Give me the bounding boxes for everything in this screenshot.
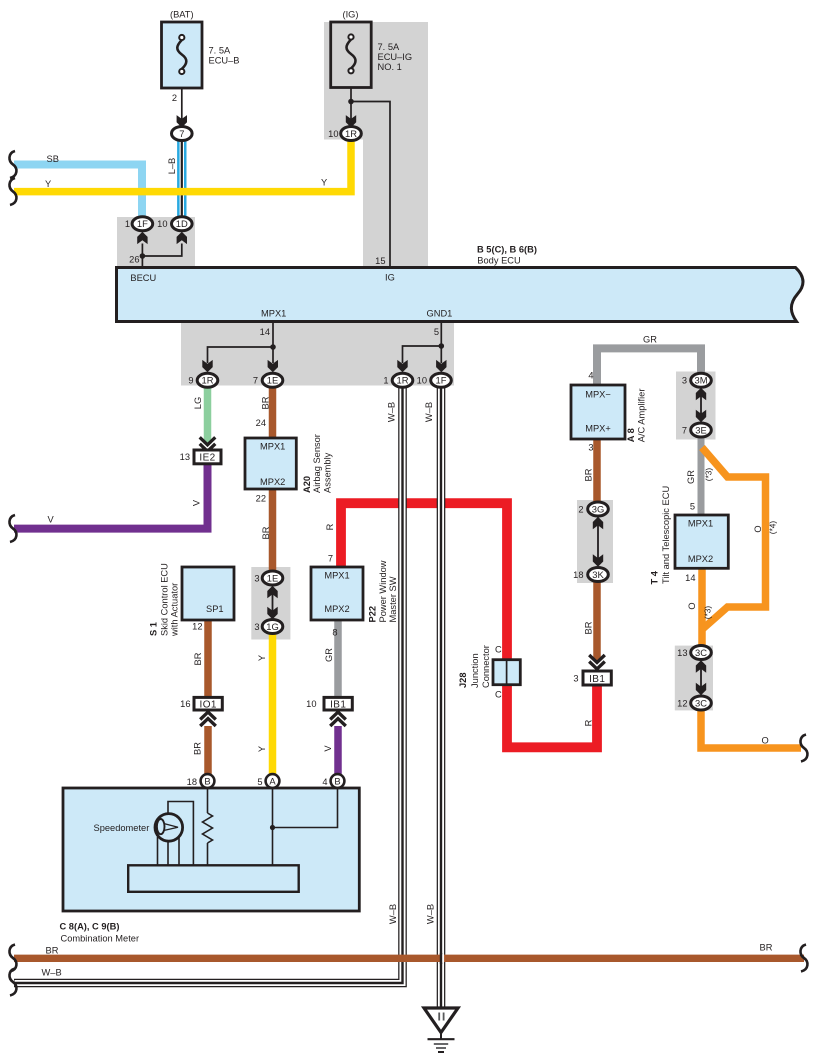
connector 1R(10) (341, 127, 362, 141)
arrow into connector 1F(10) (436, 360, 446, 372)
svg-text:12: 12 (192, 622, 202, 632)
break squiggle O right (800, 735, 807, 762)
wire GR A8 pin 4 to connector 3M (597, 348, 701, 385)
fuse ECU-B box (BAT) (162, 22, 203, 88)
arrow into connector 1E(7) (268, 360, 278, 372)
gray zone connectors 3G/3K (577, 500, 613, 583)
svg-text:R: R (325, 523, 335, 530)
svg-text:SB: SB (47, 154, 59, 164)
svg-text:Power Window: Power Window (378, 560, 388, 622)
wire BR IO1 to meter pin 18(B) (204, 726, 212, 775)
gray zone connectors 1E/1G (251, 567, 290, 640)
svg-text:R: R (584, 719, 594, 726)
connector IB1(3) (583, 671, 611, 685)
svg-text:3: 3 (254, 573, 259, 583)
svg-text:Speedometer: Speedometer (94, 823, 150, 833)
double arrow 1E-1G (272, 589, 274, 617)
arrow up into 1F (137, 232, 147, 244)
svg-text:7. 5A: 7. 5A (378, 42, 401, 52)
Body ECU box (117, 268, 804, 322)
wire fuse ECU-B pin 2 down to connector 7 (181, 88, 183, 119)
connector 3M (691, 373, 712, 387)
svg-text:GR: GR (324, 648, 334, 662)
svg-text:(*3): (*3) (703, 606, 713, 620)
svg-text:5: 5 (434, 327, 439, 337)
connector 1E(7) (262, 373, 283, 387)
gray zone IG fuse column (324, 22, 428, 267)
svg-text:BECU: BECU (130, 273, 156, 283)
svg-text:IB1: IB1 (330, 700, 346, 711)
connector 1E(3) (262, 571, 283, 585)
connector 1G(3) (262, 620, 283, 634)
wire L-B (blue/black) fuse ECU-B to connector 1D (177, 139, 186, 218)
meter pin circle B(4) (331, 774, 345, 788)
arrow into connector 1R(9) (202, 360, 212, 372)
chevrons below IO1 (200, 712, 216, 726)
svg-text:W–B: W–B (387, 402, 397, 422)
arrow into connector 1R(10) (346, 115, 356, 127)
svg-text:B 5(C), B 6(B): B 5(C), B 6(B) (477, 245, 537, 255)
svg-text:B: B (334, 775, 340, 786)
svg-text:(BAT): (BAT) (170, 10, 194, 20)
svg-text:T 4: T 4 (650, 570, 660, 584)
break squiggle W-B left (9, 969, 16, 996)
wire BR connector 3K to IB1(3) (593, 581, 601, 661)
svg-text:A20: A20 (302, 476, 312, 493)
svg-text:3G: 3G (592, 503, 605, 514)
wire O bypass loop (*4) (702, 448, 766, 630)
svg-text:BR: BR (193, 742, 203, 755)
arrow into connector 7 (177, 115, 187, 127)
node junction meter (270, 825, 275, 830)
svg-text:8: 8 (332, 628, 337, 638)
svg-text:15: 15 (375, 256, 385, 266)
connector 1D(10) (172, 217, 193, 231)
svg-text:10: 10 (328, 129, 338, 139)
svg-text:16: 16 (180, 699, 190, 709)
svg-text:7. 5A: 7. 5A (209, 46, 232, 56)
svg-text:W–B: W–B (42, 968, 62, 978)
svg-text:10: 10 (417, 376, 427, 386)
svg-text:GR: GR (643, 335, 657, 345)
svg-text:MPX+: MPX+ (585, 424, 611, 434)
svg-text:W–B: W–B (388, 904, 398, 924)
svg-text:C 8(A), C 9(B): C 8(A), C 9(B) (60, 922, 120, 932)
svg-text:S 1: S 1 (149, 622, 159, 636)
wire LG connector 1R(9) to IE2 (204, 387, 212, 444)
svg-text:MPX−: MPX− (585, 390, 611, 400)
svg-text:SP1: SP1 (206, 604, 224, 614)
connector 3G (588, 502, 609, 516)
wire BR A20 pin 22 to connector 1E(3) (269, 489, 277, 572)
svg-text:14: 14 (685, 573, 695, 583)
svg-text:Master SW: Master SW (388, 576, 398, 622)
wire meter internal pin5 to circuit plate (272, 788, 274, 865)
svg-text:Body ECU: Body ECU (477, 256, 520, 266)
svg-text:MPX1: MPX1 (260, 442, 285, 452)
svg-text:3M: 3M (694, 375, 707, 386)
airbag sensor assembly A20 box (245, 438, 296, 489)
connector 3C(13) (691, 646, 712, 660)
svg-text:ECU–IG: ECU–IG (378, 52, 413, 62)
arrow into connector 1R(1) (397, 360, 407, 372)
wire meter internal pin4 branch (273, 788, 338, 828)
svg-text:7: 7 (179, 128, 184, 139)
wire BR A8 pin 3 to connector 3G (593, 439, 601, 503)
wire speedometer top link (168, 802, 193, 866)
svg-text:J28: J28 (458, 672, 468, 688)
svg-text:1D: 1D (176, 218, 188, 229)
connector IB1(10) (324, 697, 352, 710)
wire BR connector 1E(7) to A20 pin 24 (269, 387, 277, 438)
svg-text:BR: BR (584, 621, 594, 634)
wire O connector 3C(12) to right break (701, 710, 801, 749)
svg-text:2: 2 (172, 93, 177, 103)
node junction on IG feed (348, 99, 354, 105)
svg-text:MPX1: MPX1 (324, 571, 349, 581)
svg-text:C: C (495, 690, 502, 700)
svg-text:1E: 1E (267, 375, 278, 386)
wire speedometer legs (157, 837, 159, 865)
svg-text:LG: LG (193, 397, 203, 409)
svg-text:Connector: Connector (481, 645, 491, 688)
svg-text:3: 3 (573, 673, 578, 683)
svg-text:18: 18 (187, 777, 197, 787)
wire fuse ECU-IG to junction (350, 88, 352, 120)
svg-text:3E: 3E (695, 424, 706, 435)
svg-text:1R: 1R (397, 375, 409, 386)
svg-text:1: 1 (383, 376, 388, 386)
connector 7 (172, 127, 193, 141)
svg-text:Y: Y (257, 655, 267, 661)
gray zone connectors 3C/3C (675, 646, 713, 711)
wire W-B stripe over BR crossing (441, 954, 444, 962)
wire W-B connector 1R(1) to bottom-left break (14, 387, 403, 983)
svg-text:Combination Meter: Combination Meter (61, 934, 140, 944)
svg-text:1F: 1F (436, 375, 447, 386)
chevrons into IB1(3) (589, 655, 605, 669)
svg-text:Y: Y (45, 179, 51, 189)
svg-text:BR: BR (193, 652, 203, 665)
svg-text:3C: 3C (695, 647, 707, 658)
svg-text:3K: 3K (592, 569, 604, 580)
svg-text:A: A (269, 775, 276, 786)
svg-text:Airbag Sensor: Airbag Sensor (312, 434, 322, 493)
svg-text:IO1: IO1 (200, 700, 217, 711)
svg-text:GND1: GND1 (427, 309, 453, 319)
svg-text:V: V (323, 745, 333, 752)
svg-text:BR: BR (261, 526, 271, 539)
svg-text:26: 26 (129, 255, 139, 265)
fuse ECU-B symbol (177, 40, 186, 69)
wire MPX1 pin 14 down to connectors 1R(9)/1E(7) (272, 322, 274, 364)
svg-text:Assembly: Assembly (322, 452, 332, 493)
svg-text:Y: Y (321, 178, 327, 188)
node junction pin 5 (439, 343, 445, 349)
wire meter internal pin18 to resistor (207, 788, 209, 813)
svg-text:1E: 1E (267, 572, 278, 583)
fuse ECU-IG box (IG) (331, 22, 372, 88)
connector 1F(10) (431, 373, 452, 387)
break squiggle BR right (800, 945, 807, 972)
svg-text:O: O (762, 736, 769, 746)
svg-text:ECU–B: ECU–B (209, 56, 240, 66)
wire Y (yellow) from connector 1R(IG) to left break (14, 140, 351, 192)
node junction pin 26 (140, 253, 146, 259)
svg-text:1R: 1R (345, 128, 357, 139)
connector IO1 (194, 697, 222, 710)
svg-text:Junction: Junction (470, 653, 480, 688)
svg-text:5: 5 (690, 502, 695, 512)
svg-text:18: 18 (573, 570, 583, 580)
wire IG pin 15 branch (351, 102, 390, 268)
tilt and telescopic ECU T4 box (675, 515, 728, 568)
connector 3K (588, 568, 609, 582)
svg-text:L–B: L–B (167, 158, 177, 175)
svg-text:Y: Y (257, 746, 267, 752)
wire W-B connector 1F(10) to ground (437, 387, 446, 1008)
svg-text:14: 14 (260, 327, 270, 337)
svg-text:A 8: A 8 (626, 428, 636, 442)
svg-text:9: 9 (188, 376, 193, 386)
svg-text:12: 12 (677, 699, 687, 709)
gray zone below Body ECU (181, 322, 454, 386)
double arrow 3G-3K (597, 520, 599, 564)
svg-text:with Actuator: with Actuator (170, 583, 180, 637)
svg-text:V: V (48, 515, 55, 525)
svg-text:IG: IG (385, 272, 395, 282)
svg-text:BR: BR (46, 946, 59, 956)
break squiggle V (9, 515, 16, 542)
svg-text:3: 3 (588, 443, 593, 453)
connector 1R(9) (197, 373, 218, 387)
svg-text:V: V (192, 499, 202, 506)
svg-text:O: O (753, 525, 763, 532)
svg-text:IB1: IB1 (589, 674, 605, 685)
double arrow 3C-3C (700, 664, 702, 693)
svg-text:MPX1: MPX1 (261, 309, 286, 319)
wire V from IE2 to left break (14, 463, 208, 528)
break squiggle BR left (9, 945, 16, 972)
svg-text:MPX1: MPX1 (688, 518, 713, 528)
ground symbol (424, 1008, 458, 1033)
svg-text:3C: 3C (695, 697, 707, 708)
svg-text:W–B: W–B (426, 904, 436, 924)
svg-text:5: 5 (257, 777, 262, 787)
svg-text:(IG): (IG) (342, 10, 358, 20)
wire V IB1(10) to meter pin 4(B) (334, 726, 342, 775)
wire BR S1 pin 12 to IO1 (204, 620, 212, 697)
svg-text:1G: 1G (266, 621, 279, 632)
svg-text:7: 7 (682, 425, 687, 435)
break squiggle SB (9, 151, 16, 178)
svg-text:MPX2: MPX2 (260, 477, 285, 487)
svg-text:BR: BR (261, 396, 271, 409)
svg-text:10: 10 (157, 219, 167, 229)
svg-text:IE2: IE2 (199, 453, 215, 464)
arrow up into 1D (177, 232, 187, 244)
speedometer gauge (155, 814, 183, 842)
svg-text:4: 4 (588, 371, 593, 381)
svg-text:Tilt and Telescopic ECU: Tilt and Telescopic ECU (661, 486, 671, 584)
connector IE2 (194, 450, 221, 464)
svg-text:2: 2 (578, 504, 583, 514)
wire SB (sky blue) from left break to connector 1F (14, 165, 142, 218)
svg-text:1F: 1F (137, 218, 148, 229)
svg-text:BR: BR (760, 943, 773, 953)
svg-text:10: 10 (306, 699, 316, 709)
svg-text:C: C (495, 645, 502, 655)
svg-text:(*4): (*4) (768, 521, 778, 535)
wire O T4 pin 14 to connector 3C(13) (698, 568, 706, 646)
double arrow 3M-3E (700, 391, 702, 419)
chevrons into IE2 (200, 437, 216, 451)
svg-text:3: 3 (682, 376, 687, 386)
svg-text:B: B (204, 775, 210, 786)
node junction pin 14 (270, 344, 276, 350)
svg-text:MPX2: MPX2 (688, 554, 713, 564)
svg-text:A/C Amplifier: A/C Amplifier (636, 389, 646, 443)
connector 3C(12) (691, 696, 712, 710)
connector 3E (691, 423, 712, 437)
wire R P22 pin 7 to J28 to IB1(3) (341, 503, 597, 747)
svg-text:O: O (687, 602, 697, 609)
power window master SW P22 box (311, 567, 363, 620)
chevrons below IB1(10) (330, 712, 346, 726)
svg-text:13: 13 (180, 452, 190, 462)
fuse ECU-IG symbol (346, 40, 355, 69)
svg-text:BR: BR (584, 468, 594, 481)
break squiggle Y (9, 178, 16, 205)
connector 1R(1) (392, 373, 413, 387)
svg-text:GR: GR (686, 470, 696, 484)
wire GR connector 3E to T4 pin 5 (698, 437, 705, 515)
svg-text:W–B: W–B (424, 402, 434, 422)
meter pin circle B(18) (201, 774, 215, 788)
svg-text:7: 7 (328, 554, 333, 564)
wire BECU pin 26 up to connectors 1F/1D (141, 244, 143, 268)
junction connector J28 box (493, 660, 520, 685)
gray zone connectors 1F/1D (117, 217, 195, 267)
meter circuit plate box (128, 865, 299, 892)
svg-text:3: 3 (254, 622, 259, 632)
svg-text:22: 22 (256, 494, 266, 504)
svg-text:MPX2: MPX2 (324, 604, 349, 614)
svg-text:1: 1 (125, 219, 130, 229)
wire Y connector 1G(3) to meter pin 5(A) (269, 634, 277, 775)
svg-text:7: 7 (253, 376, 258, 386)
svg-text:13: 13 (677, 648, 687, 658)
wire BR bottom bus left break to right break (14, 955, 804, 962)
combination meter box (63, 788, 359, 911)
svg-text:(*3): (*3) (704, 468, 714, 482)
svg-text:4: 4 (322, 777, 327, 787)
resistor in meter (203, 813, 213, 843)
connector 1F(1) (132, 217, 153, 231)
wire GND1 pin 5 down to connectors 1R(1)/1F(10) (440, 322, 442, 364)
svg-text:1R: 1R (202, 375, 214, 386)
svg-text:NO. 1: NO. 1 (378, 62, 402, 72)
svg-text:24: 24 (256, 418, 266, 428)
wire GR P22 pin 8 to IB1(10) (334, 620, 342, 697)
meter pin circle A(5) (266, 774, 280, 788)
A/C amplifier A8 box (571, 385, 625, 439)
gray zone connectors 3M/3E (676, 372, 716, 440)
svg-text:P22: P22 (368, 606, 378, 623)
svg-text:Skid Control ECU: Skid Control ECU (160, 563, 170, 636)
skid control ECU S1 box (182, 567, 234, 620)
